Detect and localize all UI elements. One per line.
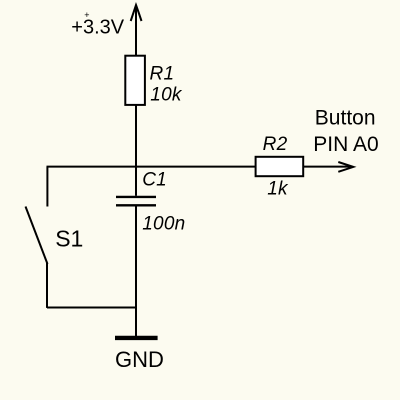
svg-text:S1: S1 xyxy=(55,225,83,251)
svg-text:+3.3V: +3.3V xyxy=(71,17,124,39)
svg-text:R2: R2 xyxy=(263,134,288,155)
svg-text:PIN A0: PIN A0 xyxy=(313,133,378,156)
svg-text:100n: 100n xyxy=(142,214,185,235)
svg-text:1k: 1k xyxy=(267,179,289,200)
svg-text:C1: C1 xyxy=(142,169,167,190)
svg-text:GND: GND xyxy=(115,347,164,372)
svg-text:Button: Button xyxy=(315,106,376,129)
svg-text:10k: 10k xyxy=(150,84,183,105)
svg-text:+: + xyxy=(84,10,89,20)
svg-text:R1: R1 xyxy=(150,63,175,84)
